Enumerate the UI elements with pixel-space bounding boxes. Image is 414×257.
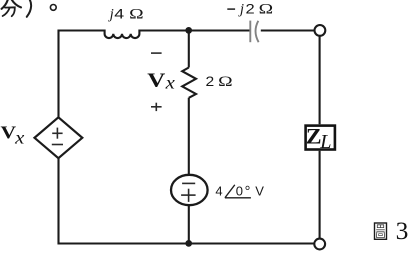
wire top-left: corner from diamond top up and right to inductor [59,31,105,118]
wire source V1 to bottom node [188,205,190,243]
svg-text:Ω: Ω [259,1,274,17]
text 分）。 top-left caption [2,0,57,17]
svg-text:j: j [108,6,114,22]
svg-text:L: L [319,131,331,153]
wire node A down to resistor [188,30,190,67]
node B junction dot (bottom middle) [185,240,192,247]
resistor 2Ω [182,68,196,98]
svg-text:Ω: Ω [218,73,233,89]
svg-text:2: 2 [246,2,255,18]
inductor j4Ω [105,30,140,39]
source V1 4∠0° V (independent, ellipse) [171,175,208,205]
svg-text:°: ° [245,184,251,200]
svg-text:j: j [238,2,244,18]
polarity + for Vx [151,106,162,108]
text 圖 3 caption [375,223,387,239]
svg-text:Ω: Ω [129,6,144,22]
polarity − for Vx [151,52,162,54]
node A junction dot (top middle) [185,27,192,34]
wire top terminal down to ZL box [319,36,321,125]
load ZL box [306,126,335,150]
wire inductor to node A [139,29,250,31]
terminal top-right (open circle) [315,25,326,36]
svg-text:0: 0 [236,184,243,199]
wire resistor to source V1 [188,98,190,175]
svg-text:x: x [165,73,176,92]
capacitor label −j2 Ω [227,8,235,10]
wire capacitor to top terminal [261,29,314,31]
dependent source (diamond) Vx [35,117,83,158]
svg-text:4: 4 [114,7,124,22]
svg-text:3: 3 [396,216,409,245]
capacitor −j2Ω (gray plates) [249,21,251,43]
terminal bottom-right (open circle) [314,239,325,250]
wire diamond bottom down and bottom rail to bottom terminal [59,158,315,244]
svg-text:2: 2 [206,75,215,90]
svg-text:V: V [147,69,166,91]
wire ZL box down to bottom terminal [319,151,321,239]
svg-text:4: 4 [215,184,222,199]
svg-text:V: V [255,184,264,199]
svg-text:x: x [14,129,25,148]
